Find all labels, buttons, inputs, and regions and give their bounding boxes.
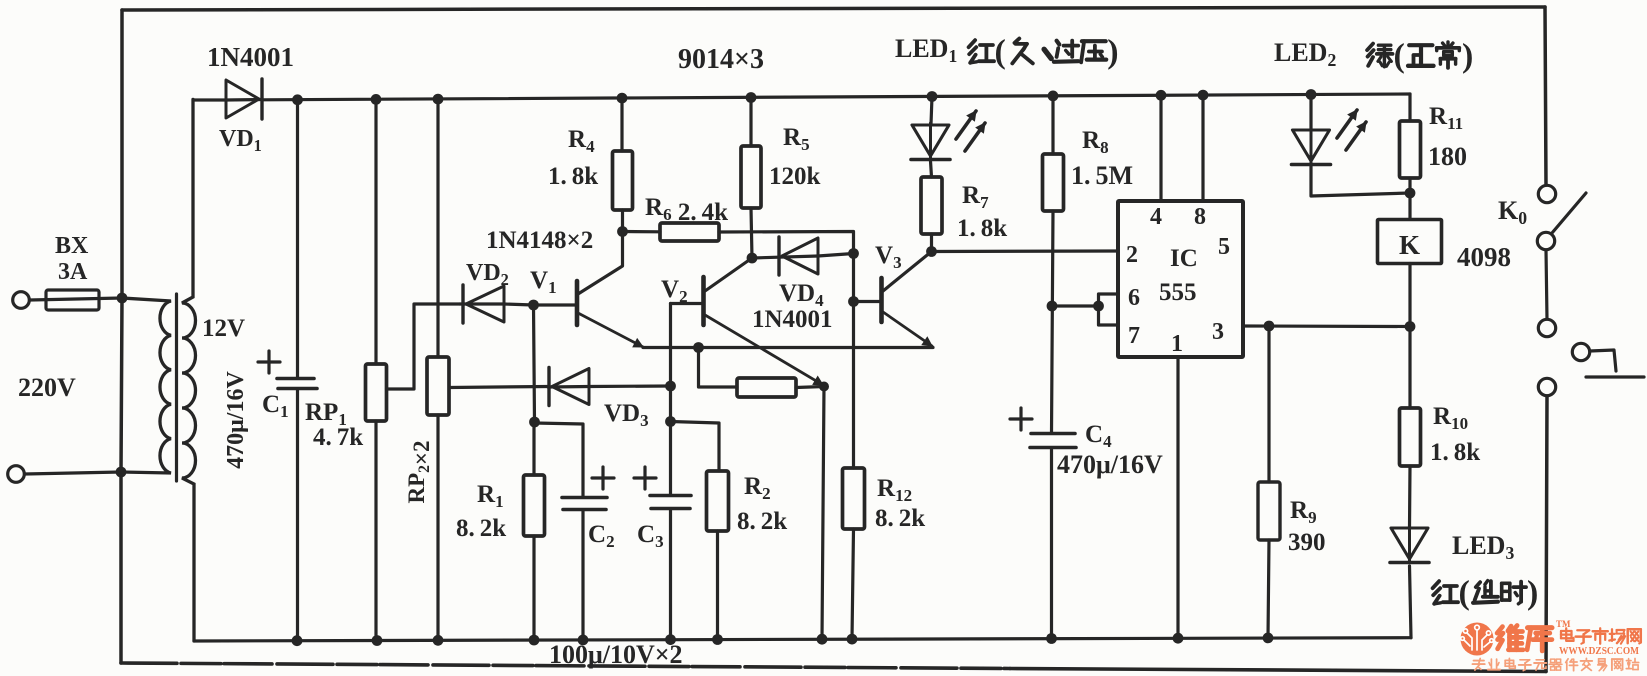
label R2 (744, 473, 771, 503)
label RP1 (305, 399, 347, 429)
capacitor C2 (562, 498, 607, 640)
svg-text:TM: TM (1556, 619, 1571, 629)
svg-text:): ) (1107, 33, 1118, 70)
svg-text:8.2k: 8.2k (875, 505, 925, 532)
diode VD3 (548, 368, 589, 406)
label pin 3 (1212, 319, 1224, 345)
wire pin 3 (1243, 324, 1410, 328)
wire RP2 bottom (436, 415, 439, 640)
resistor R12 (843, 468, 865, 639)
label LED3 (1452, 531, 1514, 563)
label V1 (530, 267, 557, 297)
label R2 value (737, 508, 787, 535)
wire aux contact hook (1586, 350, 1644, 377)
wire R3 to junction (796, 387, 824, 388)
svg-text:220V: 220V (18, 373, 76, 402)
wire outer frame top (mains) (122, 7, 1545, 10)
label R8 (1082, 127, 1109, 157)
svg-text:BX: BX (55, 233, 89, 259)
label C2 plus (592, 467, 614, 489)
label pin 5 (1218, 234, 1230, 260)
wire pin 1 (1173, 357, 1184, 644)
resistor R11 (1400, 121, 1421, 178)
wire outer frame right lower (mains) (1546, 396, 1547, 672)
label C4 plus (1010, 408, 1032, 430)
wire relay K to pin3 line (1408, 264, 1411, 327)
wire RP2 wiper to VD3 (450, 387, 548, 388)
wire tee to bracket (1052, 304, 1099, 307)
label pin 4 (1150, 204, 1162, 230)
wire LED2 top (1309, 95, 1312, 130)
svg-text:(: ( (1394, 37, 1405, 74)
svg-text:1.8k: 1.8k (548, 163, 598, 190)
label 1N4148 x2 (486, 227, 593, 254)
wire to C2 (535, 423, 584, 497)
label R5 value (769, 163, 821, 190)
node emitter junction (819, 382, 829, 392)
wire V3 base column (852, 254, 855, 469)
label pin 1 (1171, 331, 1183, 357)
transistor V2 (671, 258, 824, 385)
node R5 top (746, 92, 757, 103)
LED LED1 (911, 123, 950, 160)
transformer secondary winding (182, 99, 196, 641)
label 4098 (1457, 242, 1511, 272)
node LED1 top (927, 91, 938, 102)
svg-text:): ) (1462, 37, 1473, 74)
wire outer frame right upper (mains) (1545, 7, 1546, 185)
switch arm K0 (1552, 193, 1586, 233)
node C2 bottom (578, 635, 589, 646)
wire rail to R3 (699, 348, 738, 388)
svg-text:1N4001: 1N4001 (207, 42, 294, 72)
label LED1 caption red (969, 33, 1119, 70)
node bottom junction x822 (817, 634, 828, 645)
svg-text:4: 4 (1150, 204, 1162, 230)
wire VD2 to V1 base (504, 304, 534, 305)
node RP1 bottom (372, 635, 383, 646)
wire V2 base column (669, 304, 672, 496)
label RP2 x2 (404, 440, 434, 503)
resistor R1 (524, 422, 545, 640)
node C1 bottom (292, 635, 303, 646)
LED LED3 (1390, 526, 1429, 563)
relay contact K0 middle terminal (1537, 232, 1554, 249)
label C1 (262, 391, 289, 421)
node bracket junction (1093, 301, 1104, 312)
node R4/R6/V1 junction (617, 226, 628, 237)
label pin 8 (1194, 204, 1206, 230)
svg-text:1.8k: 1.8k (957, 215, 1007, 242)
svg-text:4098: 4098 (1457, 242, 1511, 272)
label R4 (568, 126, 595, 156)
wire LED3 bottom (1410, 566, 1412, 638)
label VD1 (219, 126, 262, 155)
svg-text:1N4001: 1N4001 (752, 306, 833, 333)
node V1 base junction (528, 300, 539, 311)
label pin 6 (1128, 285, 1140, 311)
resistor R9 (1258, 326, 1280, 638)
svg-text:4.7k: 4.7k (313, 424, 363, 451)
relay contact K0 lower terminal (1538, 319, 1555, 336)
diode VD4 (752, 237, 854, 275)
resistor R2 (707, 471, 729, 640)
label V2 (661, 276, 688, 306)
svg-text:LED2: LED2 (1274, 38, 1336, 70)
resistor R8 (1043, 154, 1064, 211)
resistor R10 (1400, 408, 1421, 466)
node LED2 top (1306, 89, 1317, 100)
potentiometer RP1 (366, 364, 387, 421)
node neutral-frame junction (116, 467, 127, 478)
resistor R6 (623, 223, 854, 254)
node fuse-frame junction (117, 293, 128, 304)
label R6 value (645, 194, 728, 226)
capacitor C3 (650, 496, 691, 640)
wire junction to R2 (671, 422, 720, 472)
label R11 (1429, 103, 1463, 133)
svg-text:WWW.DZSC.COM: WWW.DZSC.COM (1559, 645, 1640, 657)
label 1N4001 (VD1) (207, 42, 294, 72)
label LED2 (1274, 38, 1336, 70)
svg-text:6: 6 (1128, 285, 1140, 311)
svg-text:(: ( (995, 33, 1006, 70)
svg-text:LED3: LED3 (1452, 531, 1514, 563)
label C3 plus (634, 467, 656, 489)
node C4 bottom (1046, 633, 1057, 644)
wire R8 to C4 (1052, 211, 1054, 433)
svg-text:555: 555 (1159, 279, 1197, 306)
node V2 collector junction (747, 253, 758, 264)
label R12 value (875, 505, 925, 532)
svg-text:8.2k: 8.2k (737, 508, 787, 535)
wire R11 top (1408, 94, 1411, 121)
label V3 (875, 242, 902, 272)
wire neutral to frame (25, 472, 121, 474)
label R4 value (548, 163, 598, 190)
wire LED2 bottom (1311, 166, 1410, 196)
label R5 (783, 124, 810, 154)
wire pin 2 (932, 249, 1119, 253)
terminal 220V line (13, 292, 30, 309)
label R10 (1433, 403, 1468, 433)
wire outer frame left (mains) (121, 10, 122, 663)
wire R5 top (749, 98, 752, 147)
resistor R3 (unlabeled) (737, 378, 796, 397)
wire C1 top (296, 100, 299, 377)
wire to relay K (1408, 193, 1411, 219)
svg-text:1.8k: 1.8k (1430, 439, 1480, 466)
svg-text:7: 7 (1128, 323, 1140, 349)
node VD4 cathode junction (848, 248, 859, 259)
wire outer frame bottom (mains) (121, 663, 1546, 672)
label VD3 (604, 400, 649, 430)
watermark dzsc logo (1461, 619, 1641, 671)
potentiometer RP2 (427, 357, 449, 415)
svg-text:2: 2 (1126, 242, 1138, 268)
label 100u/10V x2 (549, 640, 683, 669)
label 220V (18, 373, 76, 402)
svg-text:K: K (1399, 230, 1420, 260)
wire RP1 wiper to VD2 (387, 304, 461, 389)
node V3 base junction (848, 296, 859, 307)
fuse BX 3A (30, 290, 122, 310)
wire VD3 to junction (589, 384, 671, 388)
svg-text:1: 1 (1171, 331, 1183, 357)
label C4 (1085, 421, 1112, 451)
LED1 light rays (956, 111, 985, 151)
diode VD1 (226, 79, 262, 119)
resistor R5 (741, 146, 761, 258)
label C2 (588, 521, 615, 551)
wire R11 bottom (1408, 178, 1411, 193)
svg-text:5: 5 (1218, 234, 1230, 260)
transformer primary winding (121, 298, 171, 473)
label 9014 x3 (678, 44, 764, 75)
svg-text:8.2k: 8.2k (456, 515, 506, 542)
wire R7 bottom (930, 234, 933, 252)
wire R4 drop / V1 collector (620, 98, 623, 151)
label R8 value (1071, 161, 1133, 190)
capacitor C4 (1030, 434, 1076, 639)
label R7 (962, 182, 989, 212)
label IC (1170, 245, 1198, 272)
wire emitter junction down (822, 387, 824, 640)
label K (1399, 230, 1420, 260)
label pin 2 (1126, 242, 1138, 268)
wire R8 top (1051, 96, 1054, 154)
relay contact K0 bottom terminal (1538, 378, 1555, 395)
label K0 (1498, 196, 1527, 228)
wire RP2 top (436, 99, 439, 357)
label VD2 (466, 260, 509, 289)
svg-text:9014×3: 9014×3 (678, 44, 764, 75)
label R12 (877, 475, 912, 505)
wire bottom bus (194, 638, 1411, 641)
node K/R10 junction (1405, 321, 1416, 332)
node R11/LED2 junction (1405, 188, 1416, 199)
label VD4 value 1N4001 (752, 306, 833, 333)
svg-text:1N4148×2: 1N4148×2 (486, 227, 593, 254)
svg-text:180: 180 (1428, 142, 1467, 171)
svg-text:120k: 120k (769, 163, 821, 190)
svg-text:LED1: LED1 (895, 34, 957, 66)
node R9 bottom (1263, 633, 1274, 644)
LED LED2 (1292, 128, 1331, 165)
svg-text:8: 8 (1194, 204, 1206, 230)
label RP1 value (313, 424, 363, 451)
label R7 value (957, 215, 1007, 242)
svg-text:1.5M: 1.5M (1071, 161, 1133, 190)
wire K0 middle to lower contact (1546, 250, 1547, 319)
label R9 (1290, 497, 1317, 527)
label R1 value (456, 515, 506, 542)
wire R10 to LED3 (1408, 466, 1412, 528)
wire V1 base down (534, 305, 535, 422)
node VD3 junction (665, 381, 676, 392)
resistor R7 (921, 177, 942, 234)
label C3 (637, 521, 664, 551)
label LED3 caption red-delay (1433, 574, 1539, 611)
label 555 (1159, 279, 1197, 306)
wire LED1 top (931, 97, 932, 125)
label pin 7 (1128, 323, 1140, 349)
svg-text:3A: 3A (58, 259, 88, 285)
node RP1 top (371, 94, 382, 105)
wire pin 8 (1198, 90, 1209, 201)
label 12V (202, 315, 245, 342)
label C1 value 470u/16V (223, 371, 249, 469)
node R1 bottom (529, 635, 540, 646)
wire top bus left segment (194, 98, 226, 101)
label C1 plus (258, 351, 280, 373)
node R12 bottom (847, 634, 858, 645)
node C3/R2 junction (665, 416, 676, 427)
diode VD2 (460, 285, 504, 323)
relay contact K0 upper terminal (1538, 185, 1555, 202)
node pin6/7 tee (1047, 301, 1058, 312)
node RP2 top (433, 94, 444, 105)
node rail drop junction (693, 342, 704, 353)
relay contact aux terminal (1572, 343, 1589, 360)
svg-text:12V: 12V (202, 315, 245, 342)
wire pin6/pin7 bracket (1099, 294, 1119, 325)
wire LED1 to R7 (931, 161, 932, 177)
node R8 top (1048, 91, 1059, 102)
svg-text:IC: IC (1170, 245, 1198, 272)
svg-text:100μ/10V×2: 100μ/10V×2 (549, 640, 683, 669)
label VD4 (779, 280, 824, 310)
op-amp IC 555 box (1118, 201, 1243, 357)
wire RP1 bottom (374, 421, 377, 641)
wire RP1 top (374, 99, 377, 364)
node pin3/R9 junction (1264, 321, 1275, 332)
node R2 bottom (712, 634, 723, 645)
label R11 value (1428, 142, 1467, 171)
transformer core (175, 294, 178, 481)
wire pin 4 (1156, 90, 1167, 201)
label C4 value (1057, 450, 1163, 479)
transistor V1 (534, 232, 644, 348)
svg-text:390: 390 (1288, 529, 1326, 556)
label LED2 caption green (1367, 37, 1473, 74)
label BX (55, 233, 89, 259)
LED2 light rays (1337, 110, 1366, 150)
capacitor C1 (277, 379, 317, 641)
node R4 top (617, 93, 628, 104)
label 3A (58, 259, 88, 285)
label R9 value (1288, 529, 1326, 556)
node C1 top (292, 94, 303, 105)
label R1 (477, 481, 504, 511)
node R1/C2 junction (529, 417, 540, 428)
svg-text:470μ/16V: 470μ/16V (223, 371, 249, 469)
svg-text:3: 3 (1212, 319, 1224, 345)
wire emitter rail (643, 346, 933, 349)
relay K box (1378, 220, 1442, 264)
node C3 bottom (665, 634, 676, 645)
wire R10 top (1408, 327, 1411, 409)
svg-text:): ) (1527, 574, 1538, 611)
svg-text:470μ/16V: 470μ/16V (1057, 450, 1163, 479)
label LED1 (895, 34, 957, 66)
node RP2 bottom (433, 635, 444, 646)
transistor V3 (854, 252, 933, 347)
terminal 220V neutral (8, 466, 25, 483)
svg-text:(: ( (1459, 574, 1470, 611)
resistor R4 (613, 151, 633, 232)
wire top bus (262, 94, 1410, 100)
node R7/pin2 junction (926, 246, 937, 257)
label R10 value (1430, 439, 1480, 466)
